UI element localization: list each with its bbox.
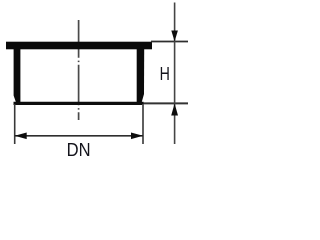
DN right extension line [142, 104, 144, 144]
H bottom extension line [144, 102, 189, 104]
H top arrowhead (points down to top extension) [171, 31, 178, 42]
H dimension line [174, 3, 176, 145]
bottom rim line [14, 102, 144, 105]
cap left wall [14, 49, 21, 103]
H top extension line [151, 41, 188, 43]
DN left arrowhead (points left) [15, 133, 27, 140]
centerline (vertical dash-dot axis) [78, 20, 80, 120]
DN left extension line [14, 104, 16, 144]
cap right wall [137, 49, 145, 103]
H bottom arrowhead (points up to bottom extension) [171, 103, 178, 115]
svg-text:DN: DN [67, 139, 91, 160]
DN right arrowhead (points right) [131, 133, 143, 140]
DN dimension line [15, 135, 143, 137]
cap flange (top bar) [6, 42, 152, 50]
svg-text:H: H [160, 64, 170, 84]
